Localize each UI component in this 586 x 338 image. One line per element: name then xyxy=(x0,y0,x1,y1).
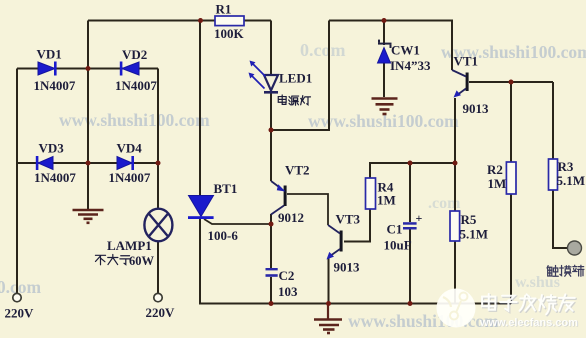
svg-text:10uF: 10uF xyxy=(384,238,412,253)
wire VT1 base to R2 R3 xyxy=(469,81,553,83)
label 1M R4 xyxy=(377,193,396,208)
resistor R2 xyxy=(506,162,516,194)
label 10uF xyxy=(384,238,412,253)
svg-text:R5: R5 xyxy=(461,212,477,227)
watermark row bottom xyxy=(0,277,499,331)
ground 2 (CW1) xyxy=(372,99,398,115)
wire VT2 emitter feed xyxy=(270,130,272,181)
resistor R3 xyxy=(549,159,558,190)
svg-text:1N4007: 1N4007 xyxy=(115,78,157,93)
label 1N4007 VD1 xyxy=(34,78,76,93)
svg-text:www.shushi100.com: www.shushi100.com xyxy=(59,110,210,130)
svg-text:VT3: VT3 xyxy=(336,212,361,227)
label VD2 xyxy=(122,47,147,62)
transistor VT3 xyxy=(327,225,343,260)
label LAMP1 xyxy=(107,238,152,253)
svg-text:103: 103 xyxy=(278,284,298,299)
wire C2 bottom xyxy=(270,277,272,303)
resistor R4 xyxy=(366,178,376,209)
wire bridge top row xyxy=(17,68,158,70)
svg-text:R2: R2 xyxy=(487,162,503,177)
svg-text:.com: .com xyxy=(428,195,461,212)
transistor VT1 xyxy=(452,70,469,98)
svg-text:VD2: VD2 xyxy=(122,47,147,62)
label 1N4007 VD4 xyxy=(109,170,151,185)
label VT1 xyxy=(454,54,479,69)
label 1M R2 xyxy=(488,176,507,191)
label 9012 xyxy=(278,210,304,225)
svg-text:LAMP1: LAMP1 xyxy=(107,238,152,253)
wire R5 bottom xyxy=(454,241,456,303)
svg-text:R3: R3 xyxy=(558,159,574,174)
svg-text:60W: 60W xyxy=(129,254,155,268)
svg-text:BT1: BT1 xyxy=(214,181,238,196)
zener CW1 xyxy=(378,40,392,63)
label 220V left xyxy=(5,306,35,321)
svg-text:9012: 9012 xyxy=(278,210,304,225)
label R5 xyxy=(461,212,477,227)
junction nodes xyxy=(86,18,514,306)
label 220V right xyxy=(146,305,176,320)
label 5.1M R5 xyxy=(460,227,489,242)
wire R2 column xyxy=(510,82,512,162)
wire VT2 base to VT3 collector xyxy=(287,194,328,225)
svg-text:IN4”33: IN4”33 xyxy=(390,58,431,73)
label 5.1M R3 xyxy=(557,173,586,188)
label 100K xyxy=(214,26,245,41)
wire C1 bottom xyxy=(409,230,411,304)
svg-text:220V: 220V xyxy=(146,305,176,320)
diode VD2 xyxy=(120,62,139,76)
label VD4 xyxy=(117,141,143,156)
label 9013 VT3 xyxy=(334,260,361,275)
ground 3 (bottom rail) xyxy=(314,304,342,333)
svg-text:VD3: VD3 xyxy=(39,141,65,156)
wire BT1 gate xyxy=(204,219,271,224)
svg-text:VD4: VD4 xyxy=(117,141,143,156)
watermark row top-right xyxy=(441,42,586,62)
wire ground 1 stem xyxy=(87,163,89,209)
label VT3 xyxy=(336,212,361,227)
wire bridge left column to 220V xyxy=(16,69,18,294)
svg-text:shi100.com: shi100.com xyxy=(0,277,42,297)
label R3 xyxy=(558,159,574,174)
wire LED column top xyxy=(270,21,272,76)
wire bridge center column xyxy=(87,69,89,164)
diode VD3 xyxy=(36,156,53,170)
label C1 xyxy=(387,222,403,237)
svg-text:5.1M: 5.1M xyxy=(460,227,489,242)
wire bridge bottom row xyxy=(17,162,158,164)
capacitor C2 xyxy=(266,268,278,277)
terminal touch pad xyxy=(568,241,582,255)
wire left drop to bridge xyxy=(87,21,89,69)
wire lamp top xyxy=(157,163,159,209)
svg-text:220V: 220V xyxy=(5,306,35,321)
svg-text:9013: 9013 xyxy=(334,260,361,275)
wire LED junction right and up to rail 2 xyxy=(271,21,329,131)
label IN4733 xyxy=(390,58,431,73)
watermark elecfans logo xyxy=(437,289,476,328)
label CW1 xyxy=(391,43,420,58)
wire VT2 collector down / BT1 gate node / C2 top xyxy=(270,214,272,268)
label BT1 xyxy=(214,181,238,196)
label C1 plus xyxy=(416,211,423,225)
svg-text:+: + xyxy=(416,211,423,225)
wire BT1 anode column xyxy=(199,21,201,197)
label 100-6 xyxy=(208,228,239,243)
svg-text:CW1: CW1 xyxy=(391,43,420,58)
wire R3 top xyxy=(552,82,554,159)
svg-text:1N4007: 1N4007 xyxy=(34,78,76,93)
watermark elecfans text xyxy=(482,294,576,315)
svg-text:100K: 100K xyxy=(214,26,245,41)
label VD3 xyxy=(39,141,65,156)
label VT2 xyxy=(285,163,310,178)
svg-text:1N4007: 1N4007 xyxy=(34,170,76,185)
label C2 xyxy=(279,268,295,283)
watermark fragments xyxy=(428,195,560,291)
label VD1 xyxy=(37,47,62,62)
label 1N4007 VD2 xyxy=(115,78,157,93)
diode VD4 xyxy=(117,156,134,170)
svg-text:VT2: VT2 xyxy=(285,163,310,178)
label lamp rating xyxy=(95,254,154,268)
wire VT3 base to R4 xyxy=(344,209,370,242)
label touch terminal xyxy=(547,265,584,276)
label power lamp xyxy=(278,95,310,105)
wire lamp bottom to 220V xyxy=(157,242,159,294)
LED LED1 xyxy=(249,61,279,94)
wire top rail 2 xyxy=(329,21,452,71)
svg-text:C1: C1 xyxy=(387,222,403,237)
wire R3 to touch terminal xyxy=(553,190,568,248)
wire top rail left (R1 rail) xyxy=(88,20,271,22)
wire CW1 anode stem xyxy=(383,21,385,46)
wire VT3 emitter column xyxy=(328,257,330,303)
svg-text:1M: 1M xyxy=(377,193,396,208)
wire bottom rail xyxy=(200,218,511,304)
label 1N4007 VD3 xyxy=(34,170,76,185)
resistor R1 xyxy=(215,16,244,26)
thyristor BT1 xyxy=(188,196,214,220)
svg-text:VT1: VT1 xyxy=(454,54,479,69)
wire R4 top / mid rail xyxy=(370,163,455,178)
svg-text:C2: C2 xyxy=(279,268,295,283)
svg-text:LED1: LED1 xyxy=(279,71,312,86)
svg-text:www.shushi100.com: www.shushi100.com xyxy=(348,311,499,331)
capacitor C1 xyxy=(403,222,417,229)
watermark elecfans url xyxy=(479,317,579,330)
svg-text:VD1: VD1 xyxy=(37,47,62,62)
label R1 xyxy=(216,2,232,17)
wire R2 bottom xyxy=(510,194,512,304)
label R2 xyxy=(487,162,503,177)
label 9013 VT1 xyxy=(463,101,490,116)
terminal 220V left xyxy=(13,293,21,301)
svg-text:0.com: 0.com xyxy=(300,40,345,60)
wire C1 column xyxy=(409,163,411,222)
svg-text:R1: R1 xyxy=(216,2,232,17)
diode VD1 xyxy=(38,62,57,76)
ground 1 (bridge center) xyxy=(73,210,104,223)
wire VT1 emitter to R5 xyxy=(454,98,456,211)
svg-text:5.1M: 5.1M xyxy=(557,173,586,188)
wire CW1 to ground 2 xyxy=(383,63,385,97)
svg-text:1M: 1M xyxy=(488,176,507,191)
watermark row middle xyxy=(59,110,459,131)
lamp LAMP1 xyxy=(144,209,172,242)
wire bridge right column xyxy=(157,69,159,164)
label R4 xyxy=(378,180,394,195)
label LED1 xyxy=(279,71,312,86)
svg-text:100-6: 100-6 xyxy=(208,228,239,243)
transistor VT2 xyxy=(271,181,287,215)
wire LED cathode to junction xyxy=(270,93,272,131)
svg-text:9013: 9013 xyxy=(463,101,490,116)
resistor R5 xyxy=(450,211,460,241)
label 103 xyxy=(278,284,298,299)
terminal 220V right xyxy=(154,293,162,301)
svg-text:1N4007: 1N4007 xyxy=(109,170,151,185)
svg-text:www.elecfans.com: www.elecfans.com xyxy=(479,317,578,329)
